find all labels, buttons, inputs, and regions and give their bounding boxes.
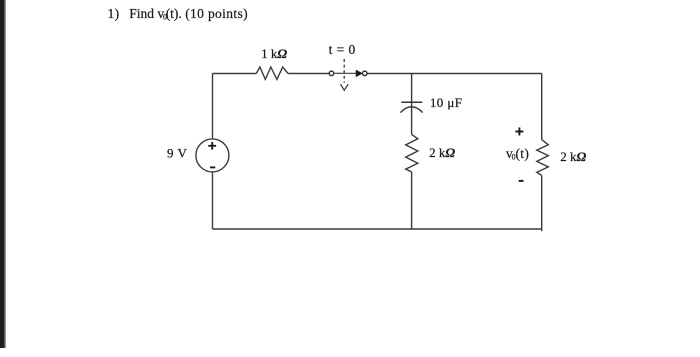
capacitor C1 10 uF (straight + curved plate): [400, 102, 422, 112]
svg-text:10 μF: 10 μF: [430, 95, 462, 110]
svg-text:1): 1): [108, 6, 120, 21]
wire: top-right corner down to R3: [541, 74, 543, 140]
voltage source V1 (independent source, 9 V): [196, 139, 229, 172]
polarity + for v0(t): [515, 128, 523, 136]
label 9 V: [167, 146, 188, 161]
svg-text:2 kΩ: 2 kΩ: [560, 149, 586, 164]
resistor R2 2 kOhm (middle vertical zigzag): [406, 134, 418, 172]
wire: switch right terminal to top-right corner (through node): [367, 73, 542, 75]
resistor R1 1 kOhm (horizontal zigzag): [256, 67, 288, 79]
switch t=0 (open terminals, closing arrow, dashed actuator line): [329, 59, 367, 90]
svg-text:1 kΩ: 1 kΩ: [261, 46, 287, 61]
wire: R2 bottom to bottom wire: [411, 172, 413, 229]
label t = 0: [329, 42, 356, 57]
value label 2 kOhm (middle): [429, 145, 455, 160]
svg-text:t = 0: t = 0: [329, 42, 356, 57]
svg-text:9 V: 9 V: [167, 146, 188, 161]
wire: left vertical from top corner down to source V1: [212, 74, 214, 140]
value label 1 kOhm: [261, 46, 287, 61]
label v0(t): [506, 146, 529, 162]
wire: C1 to R2: [411, 102, 413, 134]
node: capacitor branch tap, wire down to C1: [411, 74, 413, 103]
polarity - for v0(t): [519, 180, 524, 182]
svg-text:2 kΩ: 2 kΩ: [429, 145, 455, 160]
wire: R3 bottom to bottom-right corner: [541, 175, 543, 231]
wire: bottom return wire: [213, 228, 543, 230]
svg-text:v0(t): v0(t): [506, 146, 529, 162]
svg-text:Find v0(t). (10 points): Find v0(t). (10 points): [129, 6, 248, 22]
problem title text: [108, 6, 248, 22]
value label 2 kOhm (right): [560, 149, 586, 164]
wire: source V1 bottom to bottom-left corner: [212, 172, 214, 229]
value label 10 uF: [430, 95, 462, 110]
resistor R3 2 kOhm (right vertical zigzag): [537, 140, 549, 176]
wire: R1 to switch left terminal: [288, 73, 329, 75]
wire: top-left segment from corner node to R1: [213, 73, 257, 75]
